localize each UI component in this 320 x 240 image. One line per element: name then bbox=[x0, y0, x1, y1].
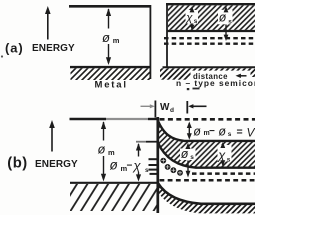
arrow phi_m minus chi_s bbox=[136, 143, 141, 182]
svg-text:d: d bbox=[170, 107, 174, 114]
value phi_m - chi_s bbox=[108, 157, 152, 175]
arrow phi_m (a) bbox=[106, 8, 111, 65]
arrow phi_s (b) bbox=[180, 143, 196, 178]
label W_d depletion width with ticks and arrows bbox=[141, 101, 207, 114]
node conduction band curve Ec (b) bbox=[158, 143, 255, 168]
wire semiconductor left edge (a) bbox=[166, 3, 168, 68]
valence band hatch strip (a) bbox=[160, 68, 255, 77]
node donor level dashed (a) bbox=[164, 37, 255, 39]
arrow chi_s (b) bbox=[217, 142, 231, 166]
svg-text:s: s bbox=[228, 131, 232, 138]
svg-text:s: s bbox=[228, 18, 232, 25]
svg-text:ø: ø bbox=[102, 30, 110, 45]
svg-text:ø: ø bbox=[219, 10, 227, 24]
svg-text:s: s bbox=[190, 154, 194, 161]
svg-text:s: s bbox=[145, 167, 149, 174]
svg-text:s: s bbox=[227, 157, 231, 164]
semiconductor upper band hatch (a) bbox=[168, 5, 255, 30]
svg-text:χ: χ bbox=[185, 12, 193, 24]
svg-text:ø: ø bbox=[110, 158, 118, 173]
svg-text:ø: ø bbox=[181, 147, 189, 161]
node semiconductor vacuum level (a) bbox=[166, 3, 255, 5]
svg-text:χ: χ bbox=[133, 158, 142, 173]
valence band hatch under Ev curve bbox=[158, 183, 255, 213]
interface states bars bbox=[149, 159, 157, 174]
energy axis arrow (a) bbox=[45, 6, 51, 40]
node donor level dashed (b) bbox=[192, 172, 255, 175]
svg-text:ENERGY: ENERGY bbox=[35, 159, 78, 170]
metal filled states hatch (a) bbox=[71, 68, 151, 80]
speck marks under label bbox=[187, 88, 200, 91]
svg-text:ø: ø bbox=[98, 142, 106, 157]
svg-text:V: V bbox=[247, 126, 256, 140]
svg-text:Metal: Metal bbox=[95, 80, 128, 91]
node barrier top level line bbox=[136, 141, 158, 143]
svg-text:ø: ø bbox=[193, 125, 201, 139]
svg-text:s: s bbox=[194, 18, 198, 25]
wire metal right edge (a) bbox=[149, 5, 151, 79]
energy axis arrow (b) bbox=[49, 120, 55, 152]
node conduction band edge Ec (a) bbox=[167, 30, 255, 32]
svg-text:m: m bbox=[113, 36, 120, 45]
node vacuum level extension dashed (b) bbox=[160, 118, 256, 121]
svg-text:=: = bbox=[237, 126, 243, 138]
value phi_m (b) bbox=[95, 141, 116, 157]
node Fermi level dashed (b) bbox=[160, 179, 256, 182]
label distance with left arrow bbox=[191, 71, 251, 81]
svg-text:W: W bbox=[160, 102, 170, 113]
value phi_m (a) bbox=[100, 29, 122, 46]
svg-text:ENERGY: ENERGY bbox=[32, 43, 75, 54]
ionized donors in depletion region bbox=[160, 158, 183, 176]
semiconductor hatched band between vacuum and Ec bbox=[158, 121, 255, 168]
svg-text:−: − bbox=[209, 126, 215, 137]
svg-text:ø: ø bbox=[218, 125, 226, 139]
metal filled states hatch (b) bbox=[70, 184, 158, 211]
node valence band edge Ev (a) bbox=[163, 66, 256, 68]
svg-text:−: − bbox=[127, 161, 133, 172]
svg-text:χ: χ bbox=[217, 148, 226, 163]
value phi_m - phi_s = V label bbox=[193, 125, 255, 140]
node metal surface line (a) bbox=[70, 66, 151, 68]
svg-text:(b): (b) bbox=[7, 155, 27, 171]
node vacuum level curve (b) bbox=[158, 121, 255, 141]
speck top-left edge bbox=[1, 55, 3, 57]
arrow phi_m (b) bbox=[101, 121, 106, 181]
node metal surface line (b) bbox=[70, 182, 159, 184]
arrow chi_s (a) bbox=[185, 6, 198, 30]
svg-text:n – type semicon: n – type semicon bbox=[176, 78, 255, 88]
wire metal-semiconductor interface bbox=[154, 101, 156, 118]
node valence band curve Ev (b) bbox=[158, 183, 255, 204]
node vacuum level metal (a) bbox=[69, 5, 151, 8]
node vacuum level metal (b) bbox=[70, 118, 159, 120]
arrow phi_m minus phi_s (contact potential) bbox=[187, 122, 192, 140]
arrow phi_s (a) bbox=[218, 6, 233, 41]
svg-text:(a): (a) bbox=[5, 40, 24, 55]
node Fermi level dashed (a) bbox=[164, 43, 255, 45]
svg-text:m: m bbox=[108, 148, 115, 157]
